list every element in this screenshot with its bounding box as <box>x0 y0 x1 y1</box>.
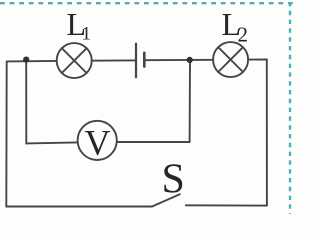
battery cell: long plate <box>135 44 137 77</box>
wire L1 to battery <box>92 59 136 61</box>
decorative right dashed border <box>289 2 291 214</box>
wire top-left segment <box>7 60 57 63</box>
wire right vertical <box>266 60 268 206</box>
voltmeter V1 circle <box>78 121 117 160</box>
wire bottom-right segment <box>186 204 267 206</box>
lamp L1 <box>57 43 92 78</box>
wire left vertical <box>5 61 7 206</box>
wire voltmeter branch bottom-left horizontal <box>26 142 77 143</box>
wire L2 to top-right corner <box>248 59 267 61</box>
node junction dot right <box>187 57 193 63</box>
switch S arm <box>152 194 180 206</box>
wire bottom-left segment <box>6 206 152 208</box>
svg-text:S: S <box>162 156 185 202</box>
svg-text:2: 2 <box>238 23 249 47</box>
wire battery to L2 <box>145 59 213 61</box>
wire voltmeter branch right vertical <box>189 60 191 142</box>
svg-text:1: 1 <box>82 24 92 45</box>
wire voltmeter branch bottom-right horizontal <box>117 141 190 143</box>
lamp L2 <box>213 42 248 77</box>
wire voltmeter branch left vertical <box>25 61 27 143</box>
decorative top dashed border <box>0 2 294 4</box>
svg-text:V: V <box>85 123 111 163</box>
battery cell: short plate <box>143 53 146 67</box>
node junction dot left <box>23 57 29 63</box>
